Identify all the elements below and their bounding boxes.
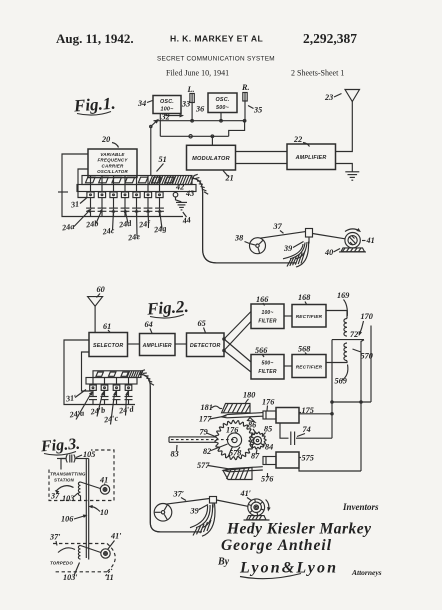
wire contact column: [90, 176, 92, 193]
torpedo dashed outline: [53, 543, 107, 545]
ground symbol (Fig.1 amplifier): [345, 171, 359, 173]
magnet coil box 575: [276, 452, 299, 468]
motor 41-prime (torpedo): [101, 549, 110, 558]
svg-text:100~: 100~: [261, 310, 273, 316]
pawl mount wedge (upper, hatched): [222, 404, 251, 413]
svg-text:RECTIFIER: RECTIFIER: [296, 314, 323, 319]
capacitor 24f: [147, 198, 149, 208]
capacitor 24d: [124, 198, 126, 208]
tape ribbon path (transmitter): [192, 178, 296, 263]
receiver contact finger 3: [113, 385, 120, 390]
svg-text:OSC.: OSC.: [160, 99, 174, 105]
wire from OSC100 to L line: [166, 114, 180, 116]
svg-text:32: 32: [161, 113, 170, 122]
slot in record strip: [112, 177, 122, 183]
receiver capacitor 2: [104, 390, 106, 396]
svg-text:MODULATOR: MODULATOR: [192, 156, 230, 162]
slot in record strip: [86, 177, 96, 183]
wire outer rail VFO to capacitor common bus: [58, 191, 68, 193]
wire switch to ribbon: [150, 127, 152, 176]
radio line 10 / 106 (double vertical): [85, 459, 87, 559]
svg-text:568: 568: [298, 345, 310, 354]
slot in record strip: [138, 177, 148, 183]
pawl arm 577 (lower): [224, 467, 263, 472]
receiver capacitor 4: [128, 390, 130, 396]
svg-text:578: 578: [229, 449, 241, 458]
svg-text:168: 168: [298, 293, 310, 302]
record strip (slotted tape) 51: [82, 176, 192, 185]
svg-text:86: 86: [248, 421, 257, 430]
wire detector to 500-filter upper (crossing): [224, 339, 251, 362]
receiver contact finger 1: [90, 385, 97, 390]
coupling arc 37-prime: [58, 548, 75, 553]
svg-text:AMPLIFIER: AMPLIFIER: [142, 343, 172, 349]
guide bracket 39: [306, 229, 313, 238]
svg-text:37′: 37′: [49, 533, 61, 542]
svg-text:41: 41: [99, 476, 108, 485]
svg-text:37′: 37′: [173, 490, 185, 499]
svg-text:31′: 31′: [64, 393, 77, 404]
wire bus oscillator outputs: [154, 120, 247, 122]
svg-text:575: 575: [302, 454, 314, 463]
receiver tape ribbon path: [140, 374, 203, 532]
rotation arc pulley: [266, 500, 269, 510]
receiver record strip (slotted tape): [93, 371, 141, 378]
wire contact column: [159, 176, 161, 193]
wire R jog to lower bus: [229, 121, 245, 137]
wire filter to rectifier (upper): [284, 315, 292, 317]
contact finger 7: [156, 192, 163, 198]
svg-text:AMPLIFIER: AMPLIFIER: [295, 155, 327, 161]
wire contact column: [101, 176, 103, 193]
wire inner rail selector to contact row: [82, 352, 93, 391]
svg-text:74: 74: [303, 425, 311, 434]
svg-text:OSCILLATOR: OSCILLATOR: [97, 169, 128, 174]
capacitor 24c: [113, 198, 115, 208]
receiver contact column: [116, 378, 118, 386]
wire antenna to selector: [94, 306, 96, 332]
svg-text:39′: 39′: [190, 507, 202, 516]
svg-text:22: 22: [293, 135, 302, 144]
receiver contact column: [104, 378, 106, 386]
slot in record strip: [99, 177, 109, 183]
receiver contact finger 2: [101, 385, 108, 390]
svg-text:500~: 500~: [216, 105, 230, 111]
svg-text:FILTER: FILTER: [258, 369, 277, 375]
wire R line: [244, 92, 246, 121]
svg-text:Lyon&Lyon: Lyon&Lyon: [239, 560, 336, 577]
svg-text:TRANSMITTING: TRANSMITTING: [50, 472, 86, 477]
500-cycle filter box 566: [251, 355, 284, 380]
svg-text:106: 106: [61, 515, 74, 524]
svg-text:64: 64: [145, 320, 153, 329]
svg-text:20: 20: [101, 135, 110, 144]
wire modulator to amplifier (lower): [236, 163, 288, 165]
svg-text:169: 169: [337, 291, 349, 300]
wire magnet 575 bottom loop: [299, 468, 361, 471]
wire contact column: [136, 176, 138, 193]
reel 38-prime: [154, 504, 172, 522]
wire lower bus to modulator: [211, 136, 213, 145]
rotation arc motor 41: [345, 229, 360, 232]
svg-text:21: 21: [225, 174, 234, 183]
modulator box 21: [187, 145, 236, 170]
slot in receiver strip: [121, 372, 128, 376]
svg-text:37: 37: [50, 492, 60, 501]
contact finger 1: [87, 192, 94, 198]
svg-text:34: 34: [137, 99, 146, 108]
svg-text:170: 170: [361, 312, 373, 321]
pulley/motor 41-prime (receiver): [248, 499, 265, 516]
svg-text:41′: 41′: [110, 532, 122, 541]
wire OSC500 to bus: [220, 113, 222, 121]
pawl tip on ratchet: [248, 418, 255, 422]
pickup coil 103-prime: [78, 546, 80, 560]
slot in receiver strip: [109, 372, 116, 376]
svg-text:L.: L.: [187, 85, 195, 94]
svg-text:87: 87: [251, 452, 260, 461]
wire inner rail VFO to contact row: [78, 169, 88, 198]
receiver capacitor 3: [116, 390, 118, 396]
wire right branch (C): [370, 326, 372, 403]
node contact circle on lower bus: [189, 135, 192, 138]
svg-text:Filed June 10, 1941: Filed June 10, 1941: [166, 69, 229, 78]
wire lower bus: [160, 135, 228, 137]
contact finger 2: [98, 192, 105, 198]
slot in record strip: [125, 177, 135, 183]
svg-text:180: 180: [243, 391, 255, 400]
svg-text:72: 72: [350, 330, 358, 339]
motor pedestal: [341, 248, 365, 252]
wire coil 103 lower stub: [80, 496, 82, 501]
svg-text:33: 33: [181, 100, 190, 109]
wire amplifier to ground: [336, 164, 353, 172]
oscillator OSC 100 box (34): [153, 96, 181, 114]
wire OSC100 to lower bus: [159, 114, 161, 137]
contact finger 4: [121, 192, 128, 198]
drive shaft 83: [169, 436, 216, 438]
wire core-right down to magnet 575 (B): [361, 340, 364, 471]
svg-text:Attorneys: Attorneys: [351, 568, 382, 577]
wire cap left leg down: [61, 459, 66, 470]
svg-text:By: By: [217, 557, 230, 568]
wire antenna to amplifier: [336, 102, 353, 152]
svg-text:36: 36: [195, 105, 205, 114]
armature plunger 176 (upper): [263, 411, 276, 419]
tape curl fan to guide 39: [283, 242, 309, 268]
pawl arm 177 (upper): [222, 413, 263, 418]
svg-text:42: 42: [175, 183, 184, 192]
svg-text:11: 11: [106, 573, 114, 582]
svg-text:24f: 24f: [138, 219, 152, 230]
wire detector to 100-filter upper: [224, 312, 251, 340]
contact finger 6: [144, 192, 151, 198]
slot in record strip: [165, 177, 175, 183]
svg-text:176: 176: [226, 426, 239, 435]
oscillator OSC 500 box (35): [208, 93, 237, 113]
svg-text:103: 103: [62, 494, 74, 503]
capacitor 24g: [159, 198, 161, 208]
wire filter to rectifier (lower): [284, 365, 292, 367]
receiver capacitor 1: [92, 390, 94, 396]
svg-text:103′: 103′: [63, 573, 78, 582]
receiver tape curl fan: [190, 504, 215, 537]
wire magnet 175 to junction (E): [299, 413, 332, 415]
svg-text:SECRET COMMUNICATION SYSTEM: SECRET COMMUNICATION SYSTEM: [157, 56, 275, 63]
svg-text:2,292,387: 2,292,387: [303, 31, 357, 46]
contact 42 (collector circle): [175, 191, 177, 194]
svg-text:STATION: STATION: [54, 478, 75, 483]
wire core-left down (A): [331, 340, 333, 439]
thread guide to pulley (receiver): [217, 500, 248, 506]
pawl mount wedge (lower, hatched): [223, 468, 252, 480]
coupling arc 37: [56, 486, 74, 491]
reel 38: [250, 238, 266, 254]
slot in record strip: [152, 177, 162, 183]
svg-text:24g: 24g: [153, 224, 167, 235]
hatch on receiver strip right end: [127, 371, 143, 377]
svg-text:OSC.: OSC.: [216, 97, 230, 103]
svg-text:Hedy Kiesler Markey: Hedy Kiesler Markey: [226, 521, 371, 538]
receiver contact column: [128, 378, 130, 386]
svg-text:51: 51: [159, 155, 167, 164]
armature plunger 576 (lower): [263, 457, 276, 465]
svg-text:24a: 24a: [61, 222, 75, 233]
svg-text:38: 38: [234, 234, 243, 243]
svg-text:60: 60: [97, 285, 105, 294]
wire rectifier to relay coil 72: [326, 311, 347, 319]
svg-text:43: 43: [185, 189, 194, 198]
100-cycle filter box 166: [251, 304, 284, 329]
wire selector to amplifier: [128, 343, 140, 345]
svg-text:166: 166: [256, 295, 269, 304]
svg-text:2 Sheets-Sheet 1: 2 Sheets-Sheet 1: [291, 69, 344, 78]
wire contact column: [124, 176, 126, 193]
variable frequency carrier oscillator box 20: [88, 149, 137, 178]
svg-text:23: 23: [324, 93, 333, 102]
svg-text:10: 10: [100, 508, 108, 517]
svg-text:Aug. 11, 1942.: Aug. 11, 1942.: [56, 31, 134, 46]
thread reel to guide: [260, 232, 306, 239]
svg-text:35: 35: [253, 106, 262, 115]
svg-text:RECTIFIER: RECTIFIER: [296, 365, 323, 370]
relay winding 570 (lower): [344, 343, 347, 361]
selector box 61: [89, 333, 128, 357]
svg-text:H. K. MARKEY ET AL: H. K. MARKEY ET AL: [170, 34, 263, 44]
receiver record strip holder bar: [86, 378, 137, 385]
thread guide to motor: [313, 234, 346, 239]
svg-text:24e: 24e: [127, 232, 141, 243]
svg-text:37: 37: [273, 222, 283, 231]
svg-text:R.: R.: [241, 83, 250, 92]
svg-text:CARRIER: CARRIER: [102, 163, 124, 168]
capacitor 24b: [101, 198, 103, 208]
hatch on receiver tape bend: [141, 370, 154, 385]
rectifier box 568: [292, 355, 326, 378]
wire modulator to amplifier (upper): [236, 151, 288, 153]
transmitting station dashed enclosure: [49, 450, 114, 501]
contact finger 5: [133, 192, 140, 198]
receiver contact column: [92, 378, 94, 386]
ground symbol 44: [176, 201, 187, 203]
wire detector to 500-filter lower: [224, 351, 251, 373]
svg-text:SELECTOR: SELECTOR: [93, 343, 123, 349]
magnet coil box 175: [276, 408, 299, 424]
wire coil 103 to motor: [81, 482, 101, 489]
wire lower rectifier to winding 570: [326, 361, 347, 363]
gear spoke: [228, 447, 233, 458]
wire cross link (D): [332, 401, 371, 403]
wire L line: [191, 93, 193, 121]
svg-text:105: 105: [83, 450, 95, 459]
svg-text:566: 566: [255, 346, 268, 355]
rectifier box 168: [292, 305, 326, 328]
svg-text:82: 82: [203, 447, 211, 456]
motor 41 (fig1): [345, 233, 360, 248]
wire outer rail selector to cap bus: [64, 340, 135, 405]
wire amplifier to detector: [175, 343, 187, 345]
capacitor 24e: [136, 198, 138, 208]
guide bracket 39-prime: [210, 497, 217, 504]
wire detector to 100-filter lower (crossing): [224, 322, 251, 351]
capacitor 74: [280, 423, 289, 438]
record strip holder bar 30: [77, 185, 196, 192]
motor 41 (station): [100, 485, 109, 494]
svg-text:George Antheil: George Antheil: [221, 537, 332, 554]
antenna 23: [345, 90, 360, 102]
slot in receiver strip: [96, 372, 103, 376]
wire coil 103-prime to motor: [81, 546, 101, 553]
svg-text:31: 31: [69, 199, 79, 209]
switch 32 arm: [151, 121, 157, 127]
svg-text:83: 83: [171, 450, 179, 459]
svg-text:84: 84: [265, 443, 273, 452]
svg-text:39: 39: [283, 244, 292, 253]
amplifier box 64: [140, 334, 176, 356]
svg-text:85: 85: [264, 425, 272, 434]
svg-text:Inventors: Inventors: [342, 502, 379, 512]
svg-text:500~: 500~: [261, 361, 273, 367]
wire contact column: [147, 176, 149, 193]
svg-text:41: 41: [366, 236, 375, 245]
capacitor 24a: [90, 198, 92, 208]
svg-text:FREQUENCY: FREQUENCY: [97, 158, 128, 163]
wire contact column: [113, 176, 115, 193]
detector box 65: [187, 333, 225, 357]
relay armature/core 72: [332, 339, 364, 341]
svg-text:DETECTOR: DETECTOR: [190, 343, 221, 349]
svg-text:181: 181: [201, 403, 213, 412]
amplifier box 22: [287, 144, 336, 170]
wire capacitor 74 to junction (F): [296, 437, 332, 439]
pulley pedestal: [247, 516, 267, 520]
svg-text:175: 175: [302, 406, 314, 415]
antenna coupling capacitor 105: [57, 458, 66, 460]
svg-text:61: 61: [103, 322, 111, 331]
receiver contact finger 4: [125, 385, 132, 390]
wire contact to ground: [176, 197, 182, 202]
svg-text:TORPEDO: TORPEDO: [50, 561, 73, 566]
svg-text:41′: 41′: [240, 489, 252, 498]
ratchet wheel 84: [249, 432, 266, 449]
pickup coil 103: [78, 482, 80, 496]
thread reel to guide (receiver): [166, 499, 210, 505]
contact finger 3: [110, 192, 117, 198]
svg-text:40: 40: [324, 248, 333, 257]
hatch on record strip right end: [149, 176, 194, 184]
svg-text:FILTER: FILTER: [258, 319, 277, 325]
relay winding 169 (upper): [344, 319, 347, 337]
hatch on tape bend: [194, 174, 209, 194]
antenna 60: [88, 297, 103, 307]
main gear 176: [215, 420, 254, 459]
svg-text:176: 176: [262, 398, 275, 407]
svg-text:VARIABLE: VARIABLE: [100, 152, 125, 157]
svg-text:79: 79: [200, 428, 208, 437]
svg-text:65: 65: [198, 319, 206, 328]
svg-text:24d: 24d: [118, 219, 133, 230]
